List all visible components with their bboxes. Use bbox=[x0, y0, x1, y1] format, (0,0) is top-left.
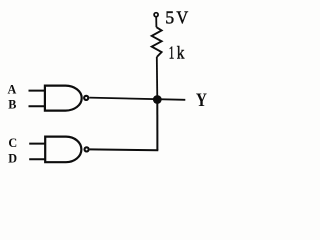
wire input C bbox=[29, 143, 46, 145]
wire terminal to resistor bbox=[155, 17, 157, 28]
wire input A bbox=[29, 90, 46, 92]
wire input B bbox=[29, 105, 46, 107]
power terminal 5V bbox=[154, 13, 158, 17]
svg-text:D: D bbox=[8, 152, 17, 166]
NAND gate U2 bbox=[45, 137, 88, 163]
svg-text:Y: Y bbox=[196, 90, 207, 111]
svg-text:C: C bbox=[8, 136, 17, 150]
svg-text:V: V bbox=[176, 8, 188, 28]
NAND gate U1 bbox=[45, 86, 88, 111]
svg-text:k: k bbox=[177, 43, 185, 63]
svg-text:5: 5 bbox=[165, 8, 174, 28]
node junction bbox=[153, 95, 162, 104]
wire gate1 output to Y bbox=[89, 98, 185, 100]
svg-text:A: A bbox=[8, 83, 17, 97]
wire input D bbox=[29, 158, 46, 160]
wire node down to gate2 output bbox=[156, 100, 158, 151]
wire gate2 output bbox=[90, 148, 159, 151]
wire resistor to node bbox=[156, 57, 159, 100]
svg-text:1: 1 bbox=[169, 44, 175, 63]
svg-text:B: B bbox=[8, 97, 16, 111]
resistor R1 bbox=[152, 27, 162, 57]
